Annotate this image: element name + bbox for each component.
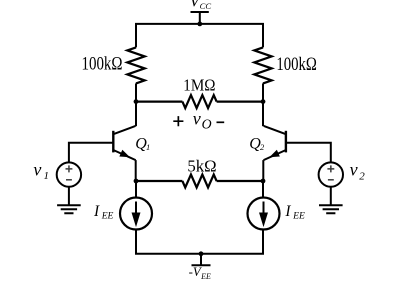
resistor RE 5k (horizontal) bbox=[136, 175, 263, 188]
svg-text:1MΩ: 1MΩ bbox=[183, 75, 215, 94]
svg-text:I: I bbox=[284, 203, 291, 220]
wire right collector to node bbox=[262, 83, 264, 101]
ground right bbox=[319, 205, 343, 213]
wire left node to Q1 collector bbox=[135, 102, 137, 127]
svg-text:v: v bbox=[33, 160, 41, 180]
resistor RF 1M (horizontal) bbox=[136, 95, 263, 108]
svg-text:1: 1 bbox=[44, 170, 50, 182]
wire Q2 base bbox=[286, 143, 331, 163]
transistor Q1 bbox=[113, 126, 135, 160]
VCC terminal bbox=[191, 12, 209, 24]
label vO plus bbox=[173, 116, 183, 126]
wire bottom rail bbox=[136, 230, 263, 254]
wire Q2 emitter down bbox=[262, 160, 264, 181]
node VEE bbox=[199, 251, 204, 256]
svg-text:EE: EE bbox=[292, 211, 305, 222]
svg-text:CC: CC bbox=[200, 1, 212, 11]
wire left emitter node to source bbox=[135, 181, 137, 198]
node emitter left bbox=[134, 179, 139, 184]
current source IEE right bbox=[248, 198, 280, 230]
wire Q1 emitter down bbox=[135, 160, 137, 181]
svg-text:EE: EE bbox=[101, 211, 114, 222]
svg-text:v: v bbox=[350, 159, 358, 179]
svg-text:5kΩ: 5kΩ bbox=[187, 156, 216, 175]
wire right emitter node to source bbox=[262, 181, 264, 198]
svg-text:I: I bbox=[93, 203, 100, 220]
wire v2 to ground bbox=[330, 187, 332, 206]
voltage source v2 bbox=[319, 162, 343, 186]
wire right node to Q2 collector bbox=[262, 102, 264, 127]
transistor Q2 bbox=[264, 126, 286, 160]
current source IEE left bbox=[120, 198, 152, 230]
svg-text:2: 2 bbox=[359, 170, 365, 182]
svg-text:EE: EE bbox=[200, 272, 211, 281]
resistor RC1 100k bbox=[127, 47, 144, 83]
wire v1 to ground bbox=[68, 187, 70, 206]
svg-text:1: 1 bbox=[146, 142, 150, 152]
label vO minus bbox=[217, 121, 225, 123]
svg-text:O: O bbox=[202, 117, 212, 132]
-VEE terminal bbox=[192, 254, 211, 265]
node emitter right bbox=[261, 179, 266, 184]
node collector left bbox=[134, 99, 139, 104]
wire left collector to node bbox=[135, 83, 137, 101]
ground left bbox=[57, 205, 81, 213]
svg-text:100kΩ: 100kΩ bbox=[276, 55, 317, 75]
node collector right bbox=[261, 99, 266, 104]
svg-text:2: 2 bbox=[260, 142, 265, 152]
svg-text:v: v bbox=[193, 109, 201, 129]
svg-text:100kΩ: 100kΩ bbox=[82, 55, 123, 75]
wire top rail bbox=[136, 24, 263, 48]
resistor RC2 100k bbox=[254, 47, 271, 83]
node VCC bbox=[197, 22, 202, 27]
wire Q1 base bbox=[69, 143, 113, 163]
voltage source v1 bbox=[57, 162, 81, 186]
